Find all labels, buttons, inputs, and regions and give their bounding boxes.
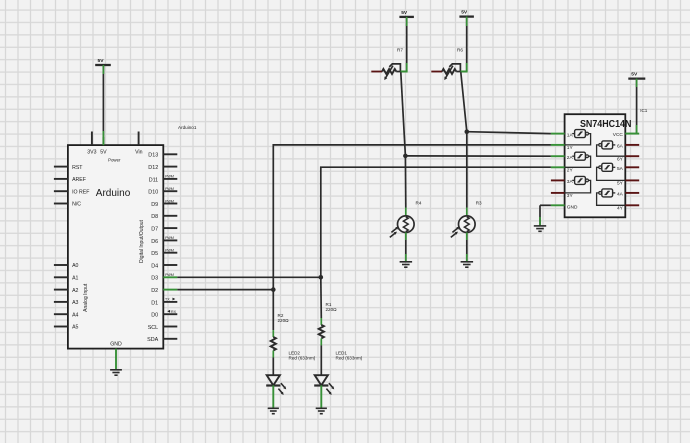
potentiometer R7	[371, 47, 407, 80]
power symbol 5V (IC1 supply)	[628, 72, 645, 79]
pin Vin	[135, 132, 143, 156]
svg-text:SDA: SDA	[147, 337, 158, 343]
svg-text:R4: R4	[416, 200, 422, 205]
label IC1	[640, 108, 648, 113]
ground (R4)	[400, 262, 413, 267]
svg-text:Arduino: Arduino	[96, 188, 131, 199]
inverter gate U1F	[597, 141, 626, 156]
inverter gate U1C	[565, 176, 591, 193]
wire LED1 to ground	[320, 385, 322, 408]
wire 5V to R7	[406, 17, 408, 72]
svg-text:D12: D12	[148, 165, 158, 171]
LED LED1	[314, 375, 334, 395]
wire 5V to R6	[466, 17, 468, 72]
svg-text:D10: D10	[148, 190, 158, 196]
svg-text:VCC: VCC	[613, 132, 624, 138]
svg-text:3V3: 3V3	[87, 150, 96, 156]
svg-text:D0: D0	[151, 313, 158, 319]
svg-text:D1: D1	[151, 300, 158, 306]
svg-text:D9: D9	[151, 202, 158, 208]
svg-text:D7: D7	[151, 227, 158, 233]
svg-text:GND: GND	[567, 205, 578, 211]
svg-text:SN74HC14N: SN74HC14N	[580, 119, 632, 130]
wire node A to LDR R4	[404, 156, 406, 216]
svg-text:5A: 5A	[617, 166, 624, 172]
svg-text:TX: TX	[165, 298, 170, 302]
junction node A (R7/R4/2A)	[403, 154, 408, 159]
svg-text:220Ω: 220Ω	[326, 307, 338, 312]
svg-text:A4: A4	[72, 312, 78, 318]
IC1 right pin stubs	[625, 134, 639, 206]
svg-text:4Y: 4Y	[617, 206, 624, 212]
inverter gate U1A	[565, 130, 591, 145]
wire R4 to ground	[405, 233, 407, 262]
junction R7 wiper node	[401, 71, 408, 73]
junction R6 wiper node	[461, 71, 468, 73]
svg-text:N/C: N/C	[72, 202, 81, 208]
svg-text:Arduino1: Arduino1	[178, 125, 197, 130]
label Arduino1	[178, 125, 197, 130]
svg-text:GND: GND	[110, 342, 122, 348]
svg-text:R7: R7	[397, 47, 403, 52]
wire R7 wiper down to node A	[401, 72, 406, 156]
wire node D down to resistor R2	[272, 290, 274, 337]
wire 5V to IC1 VCC	[625, 79, 636, 134]
svg-text:Vin: Vin	[135, 150, 143, 156]
IC1 left pin labels	[567, 132, 578, 210]
ground (LED2)	[268, 408, 279, 413]
power symbol 5V (R7 supply)	[399, 10, 414, 17]
svg-text:Red (633nm): Red (633nm)	[336, 355, 363, 360]
IC IC1 SN74HC14N body	[565, 114, 632, 217]
svg-text:PWM: PWM	[165, 273, 174, 277]
svg-text:6Y: 6Y	[617, 156, 624, 162]
wire node C down to resistor R1	[320, 277, 323, 325]
wire IC1 GND to ground	[540, 205, 551, 226]
wire node D up to IC 1Y	[273, 145, 551, 290]
svg-text:2A: 2A	[567, 155, 574, 161]
Arduino GND pin	[110, 342, 122, 370]
svg-text:RX: RX	[171, 310, 177, 314]
wire LED2 to ground	[272, 385, 274, 408]
svg-text:Red (633nm): Red (633nm)	[289, 355, 316, 360]
junction node D (D2/1Y/R2)	[271, 287, 276, 292]
wire node A to IC pin 2A	[405, 155, 551, 157]
svg-text:AREF: AREF	[72, 177, 86, 183]
svg-text:Digital Input/Output: Digital Input/Output	[139, 219, 145, 262]
svg-text:2Y: 2Y	[567, 168, 574, 174]
svg-text:3Y: 3Y	[567, 193, 574, 199]
ground (LED1)	[316, 408, 327, 413]
svg-text:1Y: 1Y	[567, 145, 574, 151]
wire R6 wiper down to node B	[461, 72, 467, 132]
wire D3 to node C	[177, 276, 320, 278]
wire D2 to node D	[177, 289, 273, 291]
wire node B to IC pin 1A	[467, 132, 551, 134]
svg-text:A2: A2	[72, 288, 78, 294]
svg-text:D11: D11	[149, 177, 159, 183]
junction node B (R6/R3/1A)	[465, 129, 470, 134]
wire 5V supply to Arduino 5V pin	[102, 65, 104, 145]
svg-text:R6: R6	[457, 47, 463, 52]
power symbol 5V (R6 supply)	[459, 10, 474, 17]
svg-text:5V: 5V	[98, 58, 105, 64]
LED LED2	[266, 375, 286, 395]
power symbol 5V (Arduino supply)	[95, 58, 111, 65]
pin 3V3	[87, 132, 96, 156]
IC1 left pin stubs	[551, 134, 565, 206]
inverter gate U1B	[565, 152, 591, 167]
Arduino right pins D13-D0 SCL SDA	[147, 153, 177, 344]
svg-text:5V: 5V	[631, 72, 638, 78]
svg-text:R3: R3	[476, 200, 482, 205]
svg-text:5V: 5V	[100, 150, 107, 156]
svg-text:D6: D6	[151, 239, 158, 245]
svg-text:220Ω: 220Ω	[278, 318, 290, 323]
ground (R3)	[461, 262, 474, 267]
svg-text:Analog Input: Analog Input	[83, 283, 89, 312]
svg-text:PWM: PWM	[165, 175, 174, 179]
svg-text:PWM: PWM	[165, 249, 174, 253]
svg-text:5Y: 5Y	[617, 181, 624, 187]
svg-text:A5: A5	[72, 325, 78, 331]
svg-text:D13: D13	[148, 153, 158, 159]
svg-text:SCL: SCL	[148, 325, 159, 331]
label R1 220Ω	[326, 302, 338, 312]
svg-text:PWM: PWM	[165, 199, 174, 203]
IC1 right pin labels	[613, 132, 624, 211]
svg-text:3A: 3A	[567, 179, 574, 185]
svg-text:RST: RST	[72, 165, 83, 171]
junction node C (D3/2Y/R1)	[319, 275, 324, 280]
pin 5V (Arduino)	[100, 137, 107, 156]
potentiometer R6	[431, 47, 467, 80]
label LED2 Red (633nm)	[289, 350, 316, 360]
wire R3 to ground	[466, 233, 468, 262]
photoresistor R4	[390, 200, 422, 237]
svg-text:5V: 5V	[461, 10, 468, 16]
svg-text:A3: A3	[72, 300, 78, 306]
svg-text:4A: 4A	[617, 192, 624, 198]
svg-text:1A: 1A	[567, 132, 574, 138]
svg-text:Power: Power	[108, 157, 121, 162]
Arduino left pins RST AREF IO-REF N/C A0-A5	[54, 165, 89, 331]
wire R2 to LED2	[272, 351, 274, 376]
inverter gate U1E	[597, 163, 626, 180]
wire node B to LDR R3	[466, 132, 468, 217]
svg-text:IO REF: IO REF	[72, 189, 89, 195]
svg-text:D5: D5	[151, 251, 158, 257]
svg-text:PWM: PWM	[165, 187, 174, 191]
svg-text:5V: 5V	[401, 10, 408, 16]
resistor R2	[271, 337, 276, 351]
svg-text:PWM: PWM	[165, 236, 174, 240]
wire R1 to LED1	[320, 338, 322, 375]
Arduino board body Arduino1	[68, 145, 163, 349]
svg-text:A1: A1	[72, 276, 78, 282]
svg-text:6A: 6A	[617, 144, 624, 150]
label R2 220Ω	[278, 313, 290, 323]
svg-text:D4: D4	[151, 263, 158, 269]
svg-text:A0: A0	[72, 263, 78, 269]
svg-text:D3: D3	[151, 276, 158, 282]
svg-text:D2: D2	[151, 288, 158, 294]
inverter gate U1D	[597, 189, 626, 205]
ground (Arduino GND)	[110, 370, 122, 375]
svg-text:D8: D8	[151, 214, 158, 220]
svg-text:IC1: IC1	[640, 108, 648, 113]
label LED1 Red (633nm)	[336, 350, 363, 360]
resistor R1	[319, 325, 324, 339]
photoresistor R3	[451, 200, 482, 237]
ground (IC1)	[534, 226, 546, 231]
wire node C up to IC 2Y	[321, 167, 551, 277]
